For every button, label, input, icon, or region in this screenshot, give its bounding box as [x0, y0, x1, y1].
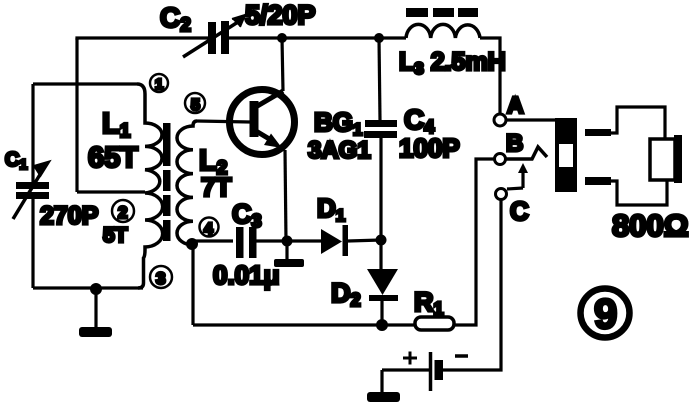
wire L3 to A	[480, 38, 500, 113]
variable capacitor C1	[13, 161, 50, 219]
wire x=77 vertical to tap	[75, 38, 78, 192]
inductor L2	[177, 121, 197, 246]
earphone wire top	[611, 107, 665, 139]
svg-text:800Ω: 800Ω	[612, 208, 689, 243]
wire collector branch	[282, 38, 283, 91]
earphone lead stub bottom	[585, 177, 611, 185]
wire bottom rail	[193, 323, 415, 326]
svg-text:270P: 270P	[40, 202, 98, 230]
svg-text:7T: 7T	[201, 172, 231, 202]
svg-text:5T: 5T	[103, 224, 128, 247]
terminal C	[496, 189, 507, 200]
wire C3 to D1	[256, 239, 321, 242]
wire emitter down	[285, 150, 286, 241]
transformer core	[163, 123, 171, 241]
node junction D2 bottom	[376, 319, 388, 331]
transistor BG1	[230, 90, 295, 155]
capacitor C3	[236, 227, 257, 258]
svg-text:A: A	[507, 92, 524, 118]
wire top rail middle	[229, 36, 406, 39]
svg-text:1: 1	[155, 76, 163, 93]
wire C4 bottom to D2	[379, 138, 382, 269]
earphone diaphragm bar	[674, 135, 682, 183]
ground left	[79, 289, 112, 337]
svg-text:C: C	[510, 196, 529, 226]
svg-text:65T: 65T	[88, 142, 138, 174]
node 4	[200, 218, 219, 239]
svg-text:B: B	[506, 130, 523, 157]
svg-text:9: 9	[594, 290, 617, 337]
switch arrow	[507, 163, 528, 189]
terminal B	[495, 154, 506, 165]
node junction 4 dot	[186, 238, 198, 250]
resistor R1	[415, 317, 454, 330]
svg-text:2: 2	[118, 203, 127, 222]
inductor L1	[137, 84, 163, 288]
node junction top C4	[374, 33, 384, 43]
ground emitter	[274, 241, 304, 267]
svg-text:100P: 100P	[399, 133, 460, 163]
label minus	[455, 354, 468, 358]
node 5	[185, 93, 205, 114]
inductor L3	[406, 8, 480, 38]
node 1	[150, 74, 168, 93]
node junction emitter	[282, 236, 293, 247]
svg-text:5/20P: 5/20P	[245, 0, 316, 30]
wire C4 top	[379, 38, 380, 120]
earphone lead stub top	[585, 129, 611, 136]
wire node4 down	[191, 246, 194, 325]
wire node4 to C3	[192, 239, 233, 242]
earphone wire bottom	[611, 180, 667, 205]
diode D2	[367, 269, 398, 325]
ground battery	[367, 370, 400, 402]
svg-text:3AG1: 3AG1	[308, 137, 371, 164]
capacitor C4	[364, 120, 397, 138]
wire A to plug	[507, 118, 555, 121]
jack plug	[555, 118, 577, 192]
svg-text:3: 3	[156, 269, 165, 288]
wire left vertical below C1	[31, 199, 34, 288]
wire bottom left	[33, 286, 143, 289]
wire left top horizontal	[33, 82, 137, 85]
wire tap to L1	[77, 190, 145, 193]
wire C down to battery	[443, 200, 501, 370]
switch arm at B	[506, 147, 547, 159]
diode D1	[321, 225, 348, 256]
earphone coil body	[650, 139, 675, 180]
battery B1	[382, 352, 443, 391]
terminal A	[494, 114, 506, 126]
node 3	[150, 266, 172, 288]
wire base	[197, 121, 250, 122]
wire D1 to node	[348, 240, 381, 241]
svg-text:0.01μ: 0.01μ	[213, 260, 280, 290]
node 2	[112, 200, 134, 222]
svg-text:5: 5	[191, 97, 200, 114]
wire left vertical above C1	[31, 84, 34, 182]
figure number 9	[581, 289, 630, 338]
label plus	[403, 352, 417, 365]
wire B to left vertical down to R1	[454, 159, 494, 325]
wire top rail left	[77, 38, 208, 40]
node junction top collector	[277, 33, 287, 43]
capacitor C2	[183, 15, 245, 57]
svg-text:4: 4	[204, 221, 213, 238]
node junction D1 C4 D2	[376, 235, 387, 246]
node junction ground left	[90, 283, 102, 295]
